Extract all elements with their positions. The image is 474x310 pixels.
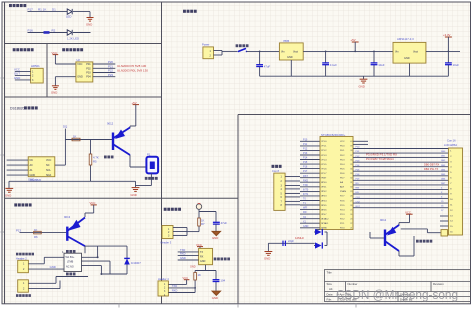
svg-text:GND: GND [5, 194, 11, 198]
wire Q2 base [20, 232, 67, 234]
svg-text:26: 26 [350, 205, 352, 207]
svg-text:29: 29 [350, 191, 352, 193]
svg-text:P2.4: P2.4 [340, 209, 345, 211]
svg-text:34: 34 [350, 168, 352, 170]
svg-text:15: 15 [321, 205, 323, 207]
svg-text:9012: 9012 [107, 122, 114, 126]
svg-text:NC: NC [30, 159, 34, 162]
wire sensor to gnd [136, 173, 152, 185]
svg-text:16: 16 [321, 209, 323, 211]
svg-text:P02: P02 [86, 67, 91, 70]
svg-text:P04: P04 [86, 76, 91, 79]
svg-text:WR: WR [303, 207, 307, 210]
svg-text:47uF: 47uF [221, 221, 228, 225]
svg-text:36: 36 [350, 159, 352, 161]
capacitor C5 [213, 222, 220, 224]
fuse F1 on row2 [44, 31, 50, 34]
svg-text:10uF: 10uF [453, 63, 460, 67]
wire U4 left pins [178, 252, 199, 260]
wire rail1 [247, 50, 280, 52]
svg-text:P2.2: P2.2 [340, 219, 345, 221]
svg-text:P0.0: P0.0 [340, 146, 345, 148]
svg-text:VCC: VCC [405, 210, 411, 214]
pin numbers U1 [321, 141, 353, 230]
wire buzzer net [187, 209, 216, 231]
svg-text:9012: 9012 [380, 218, 387, 222]
block title 继电器模块 [14, 203, 31, 206]
component small box right [441, 230, 448, 236]
svg-text:22: 22 [350, 223, 352, 225]
wire Q1 emitter to sensor [130, 155, 146, 167]
svg-text:GND: GND [264, 257, 270, 261]
svg-text:EN: EN [356, 192, 359, 194]
power +3.3V [445, 36, 452, 38]
wire power in [214, 51, 238, 56]
border zone ticks [1, 78, 357, 308]
svg-text:ULN2003 P0 5V8 130: ULN2003 P0 5V8 130 [117, 64, 147, 68]
wire rail2 5V [303, 50, 393, 52]
net labels bus [356, 147, 361, 208]
svg-text:+5V: +5V [351, 38, 356, 42]
svg-text:11: 11 [321, 187, 323, 189]
svg-text:P1.1: P1.1 [322, 146, 327, 148]
resistor R8 [194, 273, 197, 281]
svg-text:GND: GND [404, 57, 410, 60]
svg-text:TX: TX [200, 251, 203, 254]
svg-text:GND: GND [190, 266, 196, 269]
svg-text:RD: RD [303, 211, 307, 214]
svg-text:P03: P03 [86, 72, 91, 75]
wire J2 J3 to relay [28, 257, 88, 288]
svg-text:P1.4: P1.4 [322, 159, 327, 161]
svg-text:Size: Size [327, 282, 333, 286]
svg-text:P2.1: P2.1 [340, 223, 345, 225]
ground GND crystal [265, 252, 273, 256]
note red text C [117, 64, 148, 73]
svg-text:P2.7: P2.7 [340, 196, 345, 198]
svg-text:4: 4 [321, 155, 322, 157]
svg-text:R1 1K: R1 1K [38, 8, 46, 12]
svg-text:GND: GND [359, 84, 365, 88]
svg-text:GND: GND [303, 225, 309, 228]
wire U3 DQ to base [55, 140, 66, 166]
svg-text:VCC: VCC [340, 141, 345, 143]
label 蓝牙接口模块 [214, 258, 230, 261]
svg-text:27: 27 [350, 200, 352, 202]
wire row2 LED2 net [28, 32, 91, 34]
svg-text:Vin: Vin [281, 51, 285, 54]
svg-text:39: 39 [350, 146, 352, 148]
svg-text:TXD: TXD [180, 248, 185, 252]
svg-text:7805: 7805 [283, 39, 290, 43]
svg-text:DS18B20: DS18B20 [10, 107, 25, 111]
svg-text:Header 3: Header 3 [161, 241, 172, 245]
svg-text:Power: Power [202, 42, 209, 46]
wire bottom rail [9, 181, 136, 188]
svg-text:P01: P01 [86, 63, 91, 66]
svg-text:P0.4: P0.4 [340, 164, 345, 166]
svg-text:INT1: INT1 [303, 193, 309, 196]
svg-text:LTMB: LTMB [67, 261, 74, 264]
svg-text:GND: GND [77, 76, 83, 79]
svg-text:1N4007: 1N4007 [131, 261, 141, 265]
svg-text:R5: R5 [93, 159, 97, 163]
block title 指示灯模块 [9, 4, 26, 7]
svg-text:21: 21 [350, 228, 352, 230]
svg-text:P2.6: P2.6 [340, 200, 345, 202]
svg-text:ULN2003 R0L 5V8 130: ULN2003 R0L 5V8 130 [117, 68, 148, 72]
block title 电源模块 [183, 10, 197, 13]
wire rail3 3.3V [426, 50, 460, 52]
svg-text:RST: RST [303, 175, 308, 178]
svg-text:PSEN: PSEN [340, 191, 346, 193]
svg-text:24: 24 [350, 214, 352, 216]
wire Q2 emitter to relay [82, 246, 98, 257]
svg-text:VCC: VCC [77, 63, 82, 66]
label 温度传感器 [145, 177, 158, 180]
svg-text:Date:: Date: [327, 292, 334, 296]
svg-text:AMS1117-3.3: AMS1117-3.3 [397, 37, 414, 41]
switch S1 self-lock [236, 44, 249, 47]
svg-text:P13: P13 [303, 152, 308, 155]
svg-text:RST: RST [356, 206, 361, 208]
wire VCC to U2 [55, 55, 76, 86]
svg-text:P17: P17 [303, 170, 308, 173]
svg-text:P2.3: P2.3 [340, 214, 345, 216]
svg-text:GND: GND [287, 56, 293, 59]
svg-text:10: 10 [321, 182, 323, 184]
svg-text:+5V: +5V [132, 101, 137, 105]
svg-text:RX: RX [200, 256, 204, 259]
svg-text:GND: GND [200, 260, 206, 263]
diode D2 [67, 30, 79, 41]
power +5V rail [352, 41, 359, 43]
wire VCC to Q2 [85, 205, 94, 217]
svg-text:GND: GND [14, 76, 20, 80]
svg-text:8: 8 [321, 173, 322, 175]
svg-text:28: 28 [350, 196, 352, 198]
label 继电器 [66, 273, 76, 276]
svg-text:LED: LED [66, 15, 71, 19]
label 光敏电阻模块 [416, 240, 432, 243]
svg-text:30: 30 [350, 187, 352, 189]
svg-text:P1.2: P1.2 [322, 150, 327, 152]
svg-text:19: 19 [321, 223, 323, 225]
net labels [14, 68, 20, 81]
svg-text:1.2K LED: 1.2K LED [67, 37, 79, 41]
svg-text:18: 18 [321, 219, 323, 221]
connector J3 standby [18, 280, 29, 292]
svg-text:1: 1 [321, 141, 322, 143]
diode D3 1N4007 [124, 258, 130, 264]
svg-text:P16: P16 [303, 166, 308, 169]
svg-text:GND: GND [28, 177, 34, 181]
svg-text:File:: File: [327, 297, 333, 301]
IC U3 DS18B20 [28, 157, 55, 177]
svg-text:XTAL2: XTAL2 [322, 218, 329, 221]
ground rail [260, 60, 449, 79]
power VCC E [91, 204, 97, 206]
crystal Y1 cap pair [315, 229, 322, 249]
svg-text:GND: GND [51, 91, 57, 95]
capacitor C2 [325, 51, 327, 76]
wire Q3 emitter nets [399, 229, 441, 256]
module U4 bluetooth [199, 248, 213, 264]
svg-text:1K: 1K [198, 273, 202, 277]
svg-text:P3.6/WR TX4/P3M14: P3.6/WR TX4/P3M14 [366, 157, 394, 161]
svg-text:R7: R7 [201, 222, 205, 226]
svg-text:P0.6: P0.6 [340, 173, 345, 175]
svg-text:VCC: VCC [196, 243, 202, 247]
svg-text:40: 40 [350, 141, 352, 143]
wire cap to gnd [215, 224, 217, 231]
svg-text:31: 31 [350, 182, 352, 184]
svg-text:104: 104 [220, 279, 225, 283]
svg-text:+3.3V: +3.3V [443, 33, 451, 37]
wire MCU right bus to LCD connector [353, 141, 449, 226]
svg-text:SDA: SDA [46, 174, 51, 177]
net labels P20-P23 [108, 60, 113, 77]
ground GND D right [132, 188, 140, 192]
svg-text:GND: GND [86, 22, 92, 26]
block title 蜂鸣器模块 [164, 208, 181, 211]
svg-text:R6: R6 [34, 235, 38, 239]
svg-text:RST: RST [322, 178, 327, 180]
svg-text:38: 38 [350, 150, 352, 152]
wire U2 outputs [93, 64, 116, 77]
svg-text:P10: P10 [303, 138, 308, 141]
svg-text:9013: 9013 [64, 215, 71, 219]
svg-text:GND: GND [212, 236, 218, 240]
svg-text:P13: P13 [16, 229, 21, 233]
crystal circuit wires [268, 230, 327, 252]
svg-text:P0.7: P0.7 [340, 178, 345, 180]
resistor R7 [198, 218, 201, 226]
svg-text:13: 13 [321, 196, 323, 198]
svg-text:GND: GND [50, 265, 56, 269]
block title 油烟控制模块 [62, 48, 83, 51]
wire J5 pins [168, 284, 195, 292]
svg-text:25: 25 [350, 209, 352, 211]
svg-text:P11: P11 [303, 143, 308, 146]
block title 显示模块 [272, 165, 282, 168]
svg-text:A4: A4 [329, 287, 333, 291]
wire U3 left pins [7, 160, 29, 175]
power VCC F3 [184, 279, 190, 281]
svg-text:DB0-DB7 RX: DB0-DB7 RX [424, 163, 440, 167]
buzzer LS1 [196, 204, 201, 210]
resistor R5 pullup [90, 140, 92, 182]
svg-text:SCL: SCL [46, 169, 51, 172]
svg-text:3: 3 [321, 150, 322, 152]
svg-text:TXD: TXD [172, 285, 177, 288]
svg-text:P16: P16 [28, 28, 34, 32]
power VCC Q3 [406, 213, 413, 215]
wire row1 LED1 net [28, 12, 91, 17]
svg-text:P0.2: P0.2 [340, 155, 345, 157]
svg-text:P2.5: P2.5 [340, 205, 345, 207]
svg-text:NC NO: NC NO [66, 265, 74, 268]
ground GND F2 [212, 291, 220, 295]
svg-text:P3.1: P3.1 [322, 187, 327, 189]
svg-text:P1.3: P1.3 [322, 155, 327, 157]
svg-text:22pF: 22pF [288, 239, 294, 243]
svg-text:12: 12 [321, 191, 323, 193]
svg-text:P12: P12 [303, 148, 308, 151]
connector J2 output [16, 253, 34, 256]
svg-text:P2.0: P2.0 [340, 228, 345, 230]
svg-text:Con 8: Con 8 [272, 169, 279, 173]
wire relay to diode [82, 246, 128, 274]
block title 人体感应模块 [13, 48, 34, 51]
svg-text:Vout: Vout [413, 51, 418, 54]
svg-text:LCD12864: LCD12864 [444, 143, 457, 147]
svg-text:RXD: RXD [303, 179, 308, 182]
svg-text:Revision: Revision [433, 282, 444, 286]
svg-text:P14: P14 [303, 157, 308, 160]
svg-text:10uF: 10uF [378, 63, 385, 67]
svg-text:DB4 P3L TX: DB4 P3L TX [424, 167, 439, 171]
svg-text:GND: GND [131, 193, 137, 197]
ground GND C [52, 86, 59, 90]
svg-text:Vin: Vin [395, 51, 399, 54]
svg-text:33: 33 [350, 173, 352, 175]
svg-text:P15: P15 [303, 161, 308, 164]
svg-text:RXD: RXD [180, 252, 186, 256]
power VCC BT [197, 246, 203, 248]
svg-text:P17: P17 [28, 8, 34, 12]
ground GND row1 [87, 18, 94, 22]
capacitor C3 [373, 51, 375, 76]
svg-text:6: 6 [321, 164, 322, 166]
svg-text:5x1 B1+: 5x1 B1+ [66, 256, 75, 259]
wire VCC to Q1 collector [130, 105, 136, 128]
wire VCC to Q3 [399, 214, 410, 225]
note red text LCD [424, 163, 440, 171]
svg-text:INT0: INT0 [303, 189, 309, 192]
wire Q3 base [370, 232, 384, 238]
connector J7 LCD interface [274, 173, 285, 210]
svg-text:0.1uF: 0.1uF [330, 63, 337, 67]
svg-text:RXD: RXD [172, 290, 177, 293]
svg-text:P1.0: P1.0 [322, 141, 327, 143]
svg-text:37: 37 [350, 155, 352, 157]
svg-text:Title: Title [327, 271, 333, 275]
svg-text:D1: D1 [52, 8, 56, 12]
svg-text:HR501: HR501 [31, 64, 40, 68]
svg-text:CSDN @Mr-peng-song: CSDN @Mr-peng-song [336, 287, 458, 302]
svg-text:GND: GND [180, 256, 186, 260]
svg-text:VCC: VCC [90, 201, 96, 205]
capacitor C4 [447, 51, 449, 76]
wire J7 pins [285, 177, 300, 205]
svg-text:VCC: VCC [46, 159, 51, 162]
relay K1 [64, 253, 82, 271]
svg-text:17: 17 [321, 214, 323, 216]
svg-text:Vout: Vout [293, 51, 298, 54]
svg-text:23: 23 [350, 219, 352, 221]
svg-text:R2: R2 [52, 28, 56, 32]
wire U4 bottom nets [195, 265, 216, 293]
svg-text:9: 9 [321, 178, 322, 180]
svg-text:VCC: VCC [52, 51, 58, 55]
wire J4 to resistor [173, 228, 187, 236]
diode D1 [66, 9, 72, 19]
ground GND power [360, 79, 368, 83]
svg-text:2: 2 [321, 146, 322, 148]
capacitor C7 [283, 241, 285, 246]
ground GND F1 [212, 231, 220, 235]
svg-text:Number: Number [348, 282, 358, 286]
svg-text:Header 2: Header 2 [16, 256, 27, 260]
svg-text:12MHz: 12MHz [295, 236, 304, 240]
label san ji guan [104, 156, 114, 159]
svg-text:P1.7: P1.7 [322, 173, 327, 175]
svg-text:35: 35 [350, 164, 352, 166]
svg-text:P3.0/RXD P3.1/TXD RX: P3.0/RXD P3.1/TXD RX [366, 153, 397, 157]
power +5V D [133, 104, 139, 106]
wire MCU left pin stubs [300, 141, 320, 228]
svg-text:7: 7 [321, 168, 322, 170]
ground GND D left [5, 188, 13, 192]
power VCC C [53, 54, 59, 56]
svg-text:P0.5: P0.5 [340, 168, 345, 170]
svg-text:P1.5: P1.5 [322, 164, 327, 166]
svg-text:P1.6: P1.6 [322, 168, 327, 170]
svg-text:RS: RS [356, 183, 360, 185]
svg-text:NC: NC [46, 164, 50, 167]
note red text MCU [366, 153, 397, 162]
svg-text:ALE: ALE [340, 186, 345, 189]
svg-text:XTAL1: XTAL1 [322, 222, 329, 225]
capacitor C1 [259, 51, 261, 76]
svg-text:GND: GND [212, 296, 218, 300]
svg-text:VCC: VCC [183, 276, 189, 280]
connector J4 [162, 226, 173, 239]
svg-text:P0.1: P0.1 [340, 150, 345, 152]
svg-text:32: 32 [350, 178, 352, 180]
svg-text:P0.3: P0.3 [340, 159, 345, 161]
svg-text:P23: P23 [108, 73, 113, 77]
net labels MCU left [303, 138, 309, 227]
svg-text:TXD: TXD [303, 184, 308, 187]
capacitor C6 [213, 280, 220, 282]
wire sensor pins [15, 71, 31, 80]
svg-text:47uF: 47uF [264, 65, 271, 69]
svg-text:Con 16: Con 16 [447, 139, 456, 143]
svg-text:14: 14 [321, 200, 323, 202]
wire Q1 base [65, 129, 112, 140]
svg-text:5: 5 [321, 159, 322, 161]
